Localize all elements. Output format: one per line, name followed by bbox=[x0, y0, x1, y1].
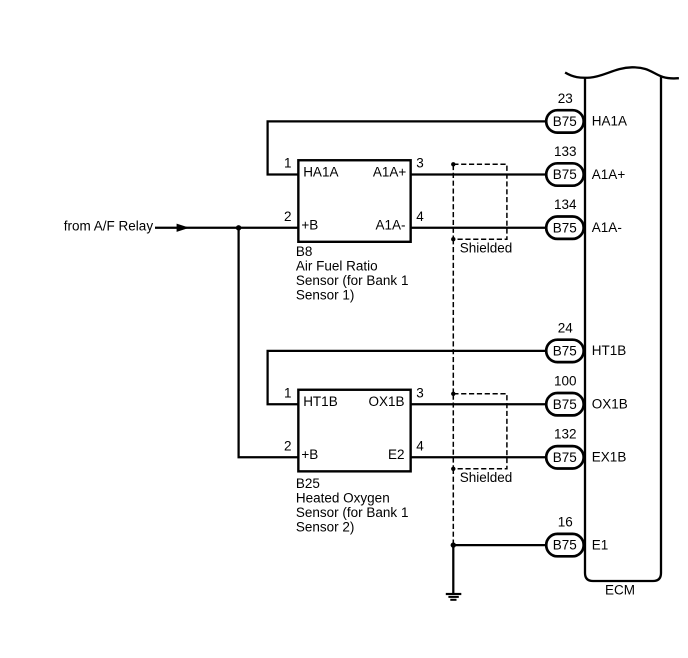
svg-text:134: 134 bbox=[554, 197, 577, 212]
B8 pin 4 bbox=[416, 209, 424, 224]
svg-text:B75: B75 bbox=[553, 114, 577, 129]
svg-text:A1A-: A1A- bbox=[375, 218, 405, 233]
B25 pin label OX1B bbox=[368, 394, 404, 409]
svg-text:EX1B: EX1B bbox=[592, 450, 627, 465]
shield S2 around OX1B/E2 bbox=[453, 394, 507, 469]
net label E1 bbox=[592, 537, 609, 552]
svg-text:HT1B: HT1B bbox=[592, 343, 627, 358]
pin number 23 bbox=[558, 91, 573, 106]
sensor B8 box bbox=[298, 160, 410, 242]
B8 designator and description bbox=[296, 244, 409, 303]
B25 pin 1 bbox=[284, 385, 292, 400]
pin number 133 bbox=[554, 144, 577, 159]
svg-text:2: 2 bbox=[284, 439, 292, 454]
label Shielded S1 bbox=[460, 241, 513, 256]
svg-text:100: 100 bbox=[554, 374, 577, 389]
wire: B25 pin3 to ECM 100 bbox=[412, 403, 546, 405]
B8 pin label +B bbox=[301, 218, 318, 233]
svg-text:Air Fuel Ratio: Air Fuel Ratio bbox=[296, 259, 378, 274]
svg-text:16: 16 bbox=[558, 515, 573, 530]
svg-text:24: 24 bbox=[558, 320, 574, 335]
B25 pin 4 bbox=[416, 439, 424, 454]
svg-text:A1A+: A1A+ bbox=[373, 164, 407, 179]
svg-text:A1A-: A1A- bbox=[592, 220, 622, 235]
ECM label bbox=[605, 582, 635, 597]
svg-text:ECM: ECM bbox=[605, 582, 635, 597]
svg-text:+B: +B bbox=[301, 447, 318, 462]
svg-text:B8: B8 bbox=[296, 244, 313, 259]
arrow on A/F relay wire bbox=[177, 224, 190, 232]
svg-text:B75: B75 bbox=[553, 538, 577, 553]
svg-text:B25: B25 bbox=[296, 476, 320, 491]
svg-text:B75: B75 bbox=[553, 397, 577, 412]
shield S1 around A1A+/A1A- bbox=[453, 164, 507, 239]
wire: junction down to B25 pin2 bbox=[239, 228, 298, 458]
svg-text:B75: B75 bbox=[553, 220, 577, 235]
svg-text:Shielded: Shielded bbox=[460, 470, 513, 485]
node: junction at shield ground bbox=[451, 542, 456, 547]
svg-text:1: 1 bbox=[284, 385, 292, 400]
shield S1 node top bbox=[451, 162, 455, 166]
svg-text:HT1B: HT1B bbox=[303, 394, 338, 409]
net label HT1B bbox=[592, 343, 627, 358]
B8 pin 2 bbox=[284, 209, 292, 224]
B8 pin 1 bbox=[284, 156, 292, 171]
connector B75 pin 23 bbox=[546, 110, 584, 132]
net label A1A+ bbox=[592, 167, 626, 182]
svg-text:4: 4 bbox=[416, 439, 424, 454]
connector B75 pin 132 bbox=[546, 446, 584, 468]
B8 pin label A1A+ bbox=[373, 164, 407, 179]
connector B75 pin 100 bbox=[546, 393, 584, 415]
svg-text:2: 2 bbox=[284, 209, 292, 224]
ECM U1 body bbox=[585, 77, 661, 582]
pin number 24 bbox=[558, 320, 574, 335]
svg-text:B75: B75 bbox=[553, 450, 577, 465]
net label HA1A bbox=[592, 114, 627, 129]
B8 pin 3 bbox=[416, 156, 424, 171]
svg-text:3: 3 bbox=[416, 385, 424, 400]
wire: B8 pin1 to ECM row A bbox=[268, 121, 546, 174]
shield S1 node bottom bbox=[451, 237, 455, 241]
svg-text:HA1A: HA1A bbox=[303, 164, 338, 179]
svg-text:A1A+: A1A+ bbox=[592, 167, 626, 182]
net label A1A- bbox=[592, 220, 622, 235]
B25 designator and description bbox=[296, 476, 409, 535]
connector B75 pin 134 bbox=[546, 217, 584, 239]
svg-text:from A/F Relay: from A/F Relay bbox=[64, 218, 154, 233]
svg-text:E1: E1 bbox=[592, 537, 609, 552]
B25 pin label +B bbox=[301, 447, 318, 462]
B25 pin label E2 bbox=[388, 447, 405, 462]
node: junction on +B feed bbox=[236, 225, 241, 230]
svg-text:+B: +B bbox=[301, 218, 318, 233]
B25 pin label HT1B bbox=[303, 394, 338, 409]
pin number 100 bbox=[554, 374, 577, 389]
svg-text:OX1B: OX1B bbox=[592, 397, 628, 412]
svg-text:4: 4 bbox=[416, 209, 424, 224]
svg-text:Sensor (for Bank 1: Sensor (for Bank 1 bbox=[296, 273, 409, 288]
label Shielded S2 bbox=[460, 470, 513, 485]
svg-text:B75: B75 bbox=[553, 167, 577, 182]
svg-text:Shielded: Shielded bbox=[460, 241, 513, 256]
connector B75 pin 133 bbox=[546, 163, 584, 185]
svg-text:132: 132 bbox=[554, 427, 577, 442]
svg-text:E2: E2 bbox=[388, 447, 405, 462]
label from A/F Relay bbox=[64, 218, 154, 233]
svg-text:1: 1 bbox=[284, 156, 292, 171]
net label EX1B bbox=[592, 450, 627, 465]
wire: B8 pin3 to ECM 133 bbox=[412, 173, 546, 175]
svg-text:HA1A: HA1A bbox=[592, 114, 627, 129]
wire: shield S2 drain (dashed) bbox=[452, 469, 454, 545]
B25 pin 3 bbox=[416, 385, 424, 400]
svg-text:23: 23 bbox=[558, 91, 573, 106]
B8 pin label A1A- bbox=[375, 218, 405, 233]
sensor B25 box bbox=[298, 390, 410, 472]
svg-text:133: 133 bbox=[554, 144, 577, 159]
ground bbox=[446, 593, 462, 601]
B25 pin 2 bbox=[284, 439, 292, 454]
pin number 134 bbox=[554, 197, 577, 212]
wire: B25 pin1 to ECM row D bbox=[268, 351, 546, 404]
svg-text:Sensor (for Bank 1: Sensor (for Bank 1 bbox=[296, 505, 409, 520]
svg-text:Heated Oxygen: Heated Oxygen bbox=[296, 490, 390, 505]
svg-text:B75: B75 bbox=[553, 344, 577, 359]
wire: B25 pin4 to ECM 132 bbox=[412, 456, 546, 458]
connector B75 pin 16 bbox=[546, 534, 584, 556]
connector B75 pin 24 bbox=[546, 340, 584, 362]
pin number 132 bbox=[554, 427, 577, 442]
shield S2 node bottom bbox=[451, 467, 455, 471]
wire: shield S1 drain (dashed) bbox=[452, 239, 454, 394]
svg-text:OX1B: OX1B bbox=[368, 394, 404, 409]
ECM wavy top edge bbox=[565, 67, 679, 78]
net label OX1B bbox=[592, 397, 628, 412]
svg-text:Sensor 2): Sensor 2) bbox=[296, 519, 355, 534]
shield S2 node top bbox=[451, 392, 455, 396]
wire: shield/ground to ECM E1 bbox=[453, 544, 545, 546]
svg-text:Sensor 1): Sensor 1) bbox=[296, 288, 355, 303]
pin number 16 bbox=[558, 515, 573, 530]
svg-text:3: 3 bbox=[416, 156, 424, 171]
wire: B8 pin4 to ECM 134 bbox=[412, 227, 546, 229]
B8 pin label HA1A bbox=[303, 164, 338, 179]
wire: junction down to ground bbox=[452, 545, 454, 593]
wire: from A/F relay to B8 pin2 bbox=[155, 227, 298, 229]
